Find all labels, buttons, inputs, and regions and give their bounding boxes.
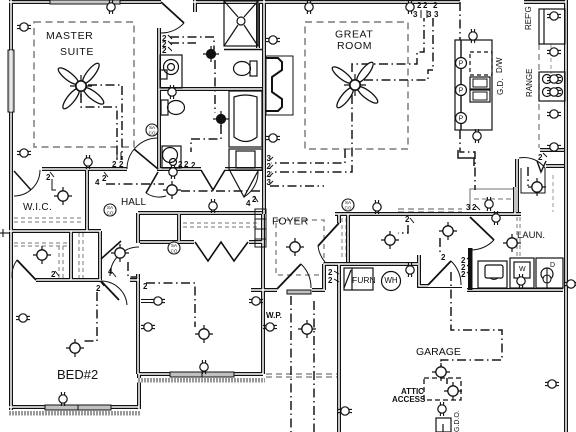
svg-text:2: 2 bbox=[328, 276, 333, 285]
svg-text:4: 4 bbox=[108, 267, 113, 276]
ceiling lights open bbox=[54, 187, 72, 205]
bed2 closet shelf dashes bbox=[14, 242, 70, 244]
solid filled laundry west wall bbox=[468, 248, 473, 290]
coat closet east wall bbox=[346, 214, 350, 262]
svg-text:P: P bbox=[459, 116, 464, 123]
washer bbox=[510, 258, 534, 288]
kitchen counter edge bbox=[538, 44, 540, 148]
bath bottom wall y168: segments bbox=[42, 167, 127, 171]
svg-text:2: 2 bbox=[96, 284, 101, 293]
patio edge dashes (side porch) bbox=[266, 373, 338, 375]
fireplace / media niche bbox=[266, 56, 293, 115]
ceiling fan: master bbox=[56, 61, 106, 111]
kitchen-hall-laundry circuit bbox=[458, 150, 474, 166]
bed2 bottom wall bbox=[9, 405, 139, 409]
kitchen-laundry walls bbox=[515, 159, 519, 212]
ceiling fan: great room bbox=[330, 60, 380, 110]
wire: garage lights loop bbox=[441, 272, 502, 366]
svg-text:G.D.O.: G.D.O. bbox=[454, 410, 461, 432]
master bedroom door bbox=[127, 138, 158, 169]
bath mid wall y88 bbox=[159, 87, 262, 91]
front door bbox=[277, 264, 301, 289]
svg-text:2: 2 bbox=[461, 270, 466, 279]
svg-text:G.D.: G.D. bbox=[496, 79, 505, 95]
svg-text:WH: WH bbox=[384, 276, 398, 285]
right exterior wall bbox=[564, 0, 568, 432]
svg-text:2: 2 bbox=[112, 160, 117, 169]
nook desk counter gray bbox=[470, 189, 514, 210]
svg-text:3: 3 bbox=[466, 203, 471, 212]
svg-text:2: 2 bbox=[46, 173, 51, 182]
closet2 door bbox=[17, 260, 36, 280]
svg-text:3: 3 bbox=[267, 178, 272, 187]
garden tub bbox=[229, 91, 262, 147]
svg-text:3: 3 bbox=[413, 10, 418, 19]
pendants bbox=[382, 58, 467, 291]
laundry opening dashes bbox=[516, 217, 518, 256]
great room tray-ceiling dashed rect bbox=[305, 22, 408, 149]
top exterior wall bbox=[9, 0, 161, 4]
svg-text:ACCESS: ACCESS bbox=[392, 395, 426, 404]
svg-text:GARAGE: GARAGE bbox=[416, 346, 461, 358]
master suite tray-ceiling dashed rect bbox=[34, 22, 134, 147]
refrigerator bbox=[539, 9, 565, 44]
svg-text:FURN: FURN bbox=[352, 275, 376, 285]
bed3 bottom wall + jog bbox=[139, 374, 263, 409]
W.I.C. shelf dashes bbox=[14, 217, 84, 219]
wire: kitchen top to island bbox=[459, 2, 461, 40]
laundry south wall bbox=[467, 288, 563, 292]
hall bottom wall y213 bbox=[138, 211, 262, 215]
wire: bed3 switch to light bbox=[146, 283, 195, 327]
garage west wall bbox=[337, 264, 341, 432]
wire: foyer leg bbox=[270, 185, 324, 187]
svg-text:ROOM: ROOM bbox=[337, 40, 372, 52]
svg-text:2: 2 bbox=[441, 253, 446, 262]
patio edge dashes (rear) bbox=[398, 208, 462, 210]
foyer shelf niche bbox=[255, 209, 266, 247]
linen closet bbox=[229, 149, 262, 170]
svg-text:4: 4 bbox=[95, 178, 100, 187]
windows & hatching bbox=[8, 0, 311, 416]
bed2/bed3 divider wall bbox=[136, 274, 140, 374]
svg-text:2: 2 bbox=[538, 153, 543, 162]
svg-text:2: 2 bbox=[472, 203, 477, 212]
svg-text:2: 2 bbox=[143, 282, 148, 291]
filled bath lights bbox=[203, 46, 219, 62]
svg-text:2: 2 bbox=[119, 160, 124, 169]
laundry west wall stub + door jamb bbox=[419, 255, 428, 286]
master suite entry door bbox=[161, 2, 184, 23]
laundry sink bbox=[478, 261, 507, 288]
svg-text:D/W: D/W bbox=[495, 57, 504, 73]
closet3 shelf dashes bbox=[78, 233, 80, 279]
wire: porch circuit west bbox=[290, 296, 292, 432]
backhall south / garage north wall bbox=[324, 262, 418, 266]
attic access dashed rect bbox=[424, 378, 461, 400]
GDO unit bbox=[436, 418, 451, 432]
wire: porch circuit east bbox=[313, 301, 315, 432]
vanity 2 bbox=[162, 146, 181, 168]
svg-text:2: 2 bbox=[433, 1, 438, 10]
closet bottom wall y280 bbox=[36, 278, 139, 282]
range bbox=[539, 72, 565, 101]
kitchen to hall door bbox=[519, 157, 545, 168]
WIC bottom wall y230 bbox=[9, 229, 101, 233]
svg-text:SUITE: SUITE bbox=[60, 46, 94, 58]
wire: bath switches to light bbox=[170, 37, 214, 50]
outlets: top/bottom wall (vertical ticks) bbox=[107, 0, 115, 14]
svg-text:3: 3 bbox=[427, 10, 432, 19]
master bath door swing (pentagon) bbox=[230, 171, 258, 197]
toilet 1 (right, facing left) bbox=[250, 61, 257, 76]
svg-text:2: 2 bbox=[191, 161, 196, 170]
hall bath bifold bbox=[201, 170, 225, 190]
svg-text:2: 2 bbox=[184, 160, 189, 169]
svg-text:2: 2 bbox=[252, 195, 257, 204]
bed3 door (swings into nook) bbox=[110, 247, 139, 276]
svg-text:2: 2 bbox=[423, 1, 428, 10]
svg-text:2: 2 bbox=[417, 1, 422, 10]
hall coat closet shelf dashes bbox=[341, 218, 343, 258]
wire: master fan to switches bbox=[88, 85, 122, 160]
svg-text:GREAT: GREAT bbox=[335, 29, 373, 41]
foyer north wall east part bbox=[335, 212, 521, 216]
shower east inner wall bbox=[256, 2, 260, 48]
svg-text:2: 2 bbox=[405, 215, 410, 224]
wire: island pendant bus bbox=[460, 40, 462, 130]
bed2 hall door leaf bbox=[146, 172, 158, 193]
svg-text:RANGE: RANGE bbox=[525, 69, 534, 97]
left exterior wall bbox=[9, 0, 13, 410]
WIC door bbox=[14, 170, 40, 196]
dryer 220V outlet bbox=[541, 268, 553, 280]
bed2 door bbox=[101, 281, 127, 305]
svg-text:2: 2 bbox=[102, 174, 107, 183]
wire: bed2 switch to light bbox=[82, 292, 97, 341]
svg-text:D: D bbox=[550, 262, 555, 269]
pantry shelves bbox=[521, 168, 545, 193]
foyer to back hall door bbox=[318, 223, 339, 246]
wire: great room leg to west switch stack bbox=[271, 149, 345, 163]
svg-text:BED#2: BED#2 bbox=[57, 367, 98, 382]
wire: pantry door to pantry light bbox=[527, 167, 529, 186]
laundry west thick wall bbox=[468, 248, 472, 290]
foyer south wall (front) bbox=[251, 288, 325, 292]
wall right of shower / fireplace wall : long vertical bbox=[262, 0, 266, 214]
smoke alarms bbox=[146, 124, 158, 136]
furnace bbox=[344, 268, 373, 290]
foyer-backhall door wall bbox=[337, 214, 341, 223]
foyer west wall long vertical bbox=[261, 214, 265, 374]
svg-text:2: 2 bbox=[178, 160, 183, 169]
WIC east wall bbox=[85, 170, 89, 231]
svg-text:2: 2 bbox=[162, 46, 167, 55]
wire: master fan leg 2 bbox=[81, 94, 117, 160]
svg-text:P: P bbox=[459, 88, 464, 95]
bed3 closet bottom wall bbox=[140, 240, 263, 244]
hall to laundry door bbox=[470, 217, 494, 240]
outlets: side walls (horizontal ticks) bbox=[17, 23, 31, 31]
svg-text:HALL: HALL bbox=[121, 197, 146, 208]
WH bbox=[382, 272, 401, 291]
svg-text:W.I.C.: W.I.C. bbox=[23, 202, 52, 213]
wire: great room fan to top switches bbox=[364, 18, 433, 80]
svg-text:LAUN.: LAUN. bbox=[517, 230, 545, 241]
svg-text:2: 2 bbox=[51, 270, 56, 279]
svg-text:W: W bbox=[519, 266, 526, 273]
dryer bbox=[536, 258, 563, 288]
svg-text:3: 3 bbox=[434, 10, 439, 19]
svg-text:MASTER: MASTER bbox=[46, 30, 93, 42]
foyer dashed arch rect bbox=[276, 220, 324, 275]
wire: bath light to bath light 2 bbox=[214, 60, 216, 113]
svg-text:P: P bbox=[459, 61, 464, 68]
bed3 west wall upper bbox=[136, 213, 140, 243]
bed3 closet shelf dashes bbox=[183, 222, 258, 224]
bed3 circuit bbox=[128, 262, 137, 277]
wire: great room fan leg 2 bbox=[352, 18, 424, 72]
shower bbox=[224, 1, 258, 46]
closet divider walls bbox=[69, 231, 73, 280]
wire: hall light to east switches bbox=[181, 190, 260, 192]
kitchen island bbox=[455, 40, 492, 130]
vanity 1 bbox=[160, 55, 182, 88]
svg-text:W.P.: W.P. bbox=[266, 311, 282, 320]
bed3 closet bifold double V bbox=[195, 242, 248, 261]
wire: bath light 2 to vanity switches bbox=[191, 125, 221, 152]
wire: great room fan to west switch stack bbox=[271, 95, 352, 172]
svg-text:FOYER: FOYER bbox=[272, 216, 309, 228]
wire: island to desk switches bbox=[460, 130, 475, 190]
hall-bath block left wall bbox=[157, 28, 161, 168]
hall to garage door bbox=[428, 261, 451, 285]
toilet 2 (left, facing right) bbox=[161, 100, 168, 115]
svg-text:REF'G: REF'G bbox=[524, 6, 533, 30]
wire: hall switches to hall light bbox=[106, 183, 164, 185]
svg-text:4: 4 bbox=[246, 199, 251, 208]
